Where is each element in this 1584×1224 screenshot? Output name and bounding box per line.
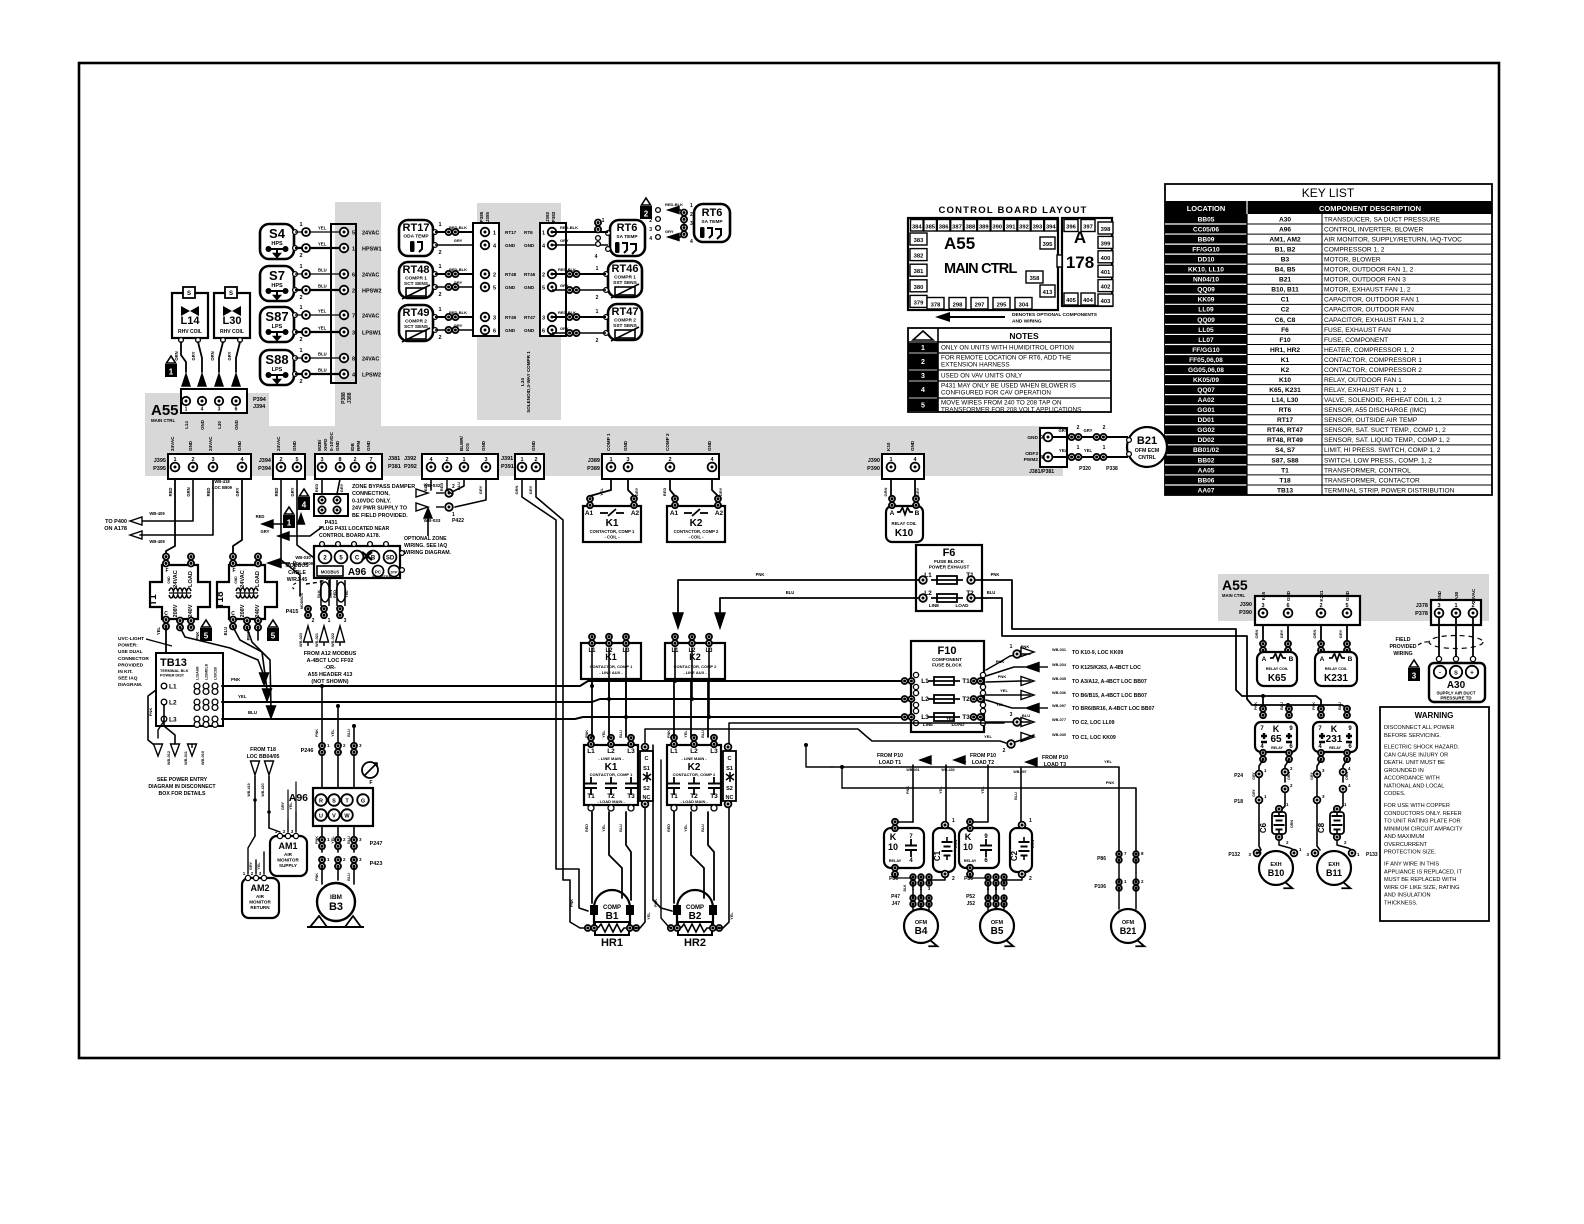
arrowhead into P394: [182, 374, 190, 386]
svg-text:399: 399: [1101, 241, 1111, 247]
wire from P10 T3 to C2: [1014, 768, 1021, 824]
svg-text:T18: T18: [215, 591, 226, 609]
svg-text:404: 404: [1083, 298, 1093, 304]
svg-text:QQ09: QQ09: [1197, 287, 1215, 294]
svg-text:L2: L2: [690, 748, 698, 755]
wire L2 line to P246 branch: [331, 704, 340, 742]
svg-text:4: 4: [595, 254, 598, 260]
svg-text:SST SENS: SST SENS: [613, 280, 638, 286]
note 4 flag at P431: [298, 489, 310, 510]
svg-text:YEL: YEL: [318, 226, 327, 231]
svg-text:- COIL -: - COIL -: [688, 535, 704, 540]
note 2 flag (remote RT6): [640, 198, 652, 219]
svg-text:B3: B3: [329, 901, 343, 913]
svg-text:GRY: GRY: [1279, 629, 1284, 638]
svg-text:8: 8: [352, 357, 355, 363]
wire from P10 T1 to K10 contact: [895, 765, 913, 826]
svg-text:S1: S1: [643, 766, 650, 772]
svg-text:2: 2: [299, 253, 302, 259]
svg-text:P246: P246: [301, 748, 314, 754]
svg-text:FUSE BLOCK: FUSE BLOCK: [934, 559, 965, 564]
svg-text:P381: P381: [388, 464, 401, 470]
svg-text:B2: B2: [689, 911, 702, 922]
svg-text:378: 378: [931, 303, 941, 309]
svg-text:RED: RED: [256, 514, 265, 519]
svg-text:TO A3/A12, A-4BCT LOC BB07: TO A3/A12, A-4BCT LOC BB07: [1072, 679, 1147, 685]
svg-text:TO C2, LOC LL09: TO C2, LOC LL09: [1072, 720, 1115, 726]
svg-text:K10: K10: [886, 442, 891, 451]
wire J392-4 down: [423, 479, 431, 491]
svg-text:1: 1: [185, 407, 188, 413]
switch S4: [260, 224, 297, 259]
svg-text:RELAY, OUTDOOR FAN 1: RELAY, OUTDOOR FAN 1: [1324, 377, 1402, 384]
air monitor AM2: [242, 871, 279, 918]
sheet border frame: [79, 63, 1499, 1058]
svg-text:J381/P381: J381/P381: [1029, 469, 1054, 475]
exhaust fan motor B11: [1306, 841, 1377, 888]
svg-text:B21: B21: [1120, 926, 1137, 936]
svg-text:5: 5: [493, 286, 496, 292]
svg-text:CONTACTOR, COMP 2: CONTACTOR, COMP 2: [673, 772, 716, 777]
solenoid valve L14: [172, 287, 208, 342]
svg-text:TB13: TB13: [1277, 487, 1293, 494]
connector P385/J385: [473, 211, 499, 336]
contactor K2 main contacts: [667, 735, 736, 811]
svg-text:398: 398: [1101, 227, 1111, 233]
svg-text:2: 2: [191, 457, 194, 463]
svg-text:WB-022: WB-022: [331, 633, 335, 647]
svg-text:BLU: BLU: [318, 368, 327, 373]
svg-text:HPS: HPS: [271, 241, 283, 247]
svg-text:389: 389: [979, 225, 989, 231]
svg-text:YEL: YEL: [684, 730, 688, 738]
svg-text:K2: K2: [1281, 367, 1290, 374]
svg-text:POWER EXHAUST: POWER EXHAUST: [929, 565, 970, 570]
sensor RT46: [604, 261, 642, 298]
svg-text:SCT SENS: SCT SENS: [404, 281, 429, 287]
svg-text:1: 1: [952, 818, 955, 824]
svg-text:CONTROL BOARD A178.: CONTROL BOARD A178.: [319, 533, 381, 539]
svg-text:LPS: LPS: [272, 367, 283, 373]
svg-text:BB06: BB06: [1198, 477, 1215, 484]
svg-text:PROVIDED: PROVIDED: [118, 662, 144, 668]
svg-text:RED: RED: [585, 824, 589, 832]
svg-text:K: K: [1331, 724, 1338, 734]
svg-text:L14, L30: L14, L30: [1272, 397, 1299, 404]
svg-text:WB-011: WB-011: [184, 751, 188, 765]
svg-text:FUSE, COMPONENT: FUSE, COMPONENT: [1324, 337, 1388, 344]
svg-text:YEL: YEL: [1059, 448, 1068, 453]
wire T18 secondary to L2/L3 lines: [233, 627, 276, 718]
svg-text:TRANSFORMER FOR 208 VOLT APPLI: TRANSFORMER FOR 208 VOLT APPLICATIONS: [941, 406, 1081, 413]
svg-text:P392: P392: [404, 464, 417, 470]
svg-text:STP: STP: [391, 571, 399, 575]
bus: A55 main control board shaded area (right section): [1218, 574, 1489, 621]
svg-text:RED-BLK: RED-BLK: [449, 310, 467, 315]
svg-text:K65, K231: K65, K231: [1269, 387, 1301, 394]
svg-text:A: A: [1262, 656, 1267, 663]
svg-text:208V: 208V: [240, 604, 246, 617]
control board layout title: [938, 205, 1087, 216]
svg-text:BLU: BLU: [318, 284, 327, 289]
svg-text:MOTOR, BLOWER: MOTOR, BLOWER: [1324, 257, 1381, 264]
svg-text:APPLIANCE IS REPLACED, IT: APPLIANCE IS REPLACED, IT: [1384, 869, 1463, 875]
svg-text:YEL: YEL: [602, 824, 606, 832]
svg-text:P415: P415: [286, 609, 299, 615]
svg-text:HR2: HR2: [684, 937, 706, 949]
svg-text:J390: J390: [868, 458, 880, 464]
wire P423 to B3: [315, 868, 354, 884]
svg-text:ORN: ORN: [954, 840, 958, 849]
svg-text:24VAC: 24VAC: [240, 570, 246, 588]
svg-text:1: 1: [299, 264, 302, 270]
svg-text:CONTACTOR, COMP 2: CONTACTOR, COMP 2: [674, 529, 719, 534]
svg-text:PNK: PNK: [756, 572, 765, 577]
svg-text:L2: L2: [607, 748, 615, 755]
svg-text:B21: B21: [1279, 277, 1291, 284]
svg-text:2: 2: [438, 335, 441, 341]
svg-text:GND: GND: [237, 440, 242, 451]
svg-text:WIRE OF LIKE SIZE, RATING: WIRE OF LIKE SIZE, RATING: [1384, 885, 1459, 891]
svg-text:P390: P390: [867, 466, 880, 472]
svg-text:GND: GND: [1286, 590, 1291, 601]
wire S4 pin 1 to J388: [295, 222, 341, 236]
svg-text:2: 2: [690, 212, 693, 218]
svg-text:24VAC: 24VAC: [362, 357, 379, 363]
svg-text:WB-419: WB-419: [247, 783, 251, 796]
svg-text:RT47: RT47: [612, 306, 639, 318]
svg-text:J392: J392: [404, 456, 416, 462]
svg-text:2: 2: [312, 618, 315, 624]
svg-text:A55: A55: [944, 234, 975, 253]
svg-text:- LINE AUX -: - LINE AUX -: [683, 670, 707, 675]
svg-text:J394: J394: [259, 458, 272, 464]
svg-text:J381: J381: [388, 456, 400, 462]
wire L1 line to P246 branch: [315, 684, 324, 742]
svg-text:GRY: GRY: [290, 487, 295, 496]
plug P431 location note: [319, 526, 389, 539]
svg-text:BE FIELD PROVIDED.: BE FIELD PROVIDED.: [352, 513, 408, 519]
svg-text:PNK: PNK: [654, 899, 658, 907]
relay K10 coil: [886, 496, 923, 542]
svg-text:P86: P86: [964, 876, 973, 882]
svg-text:PC: PC: [375, 570, 382, 575]
svg-text:GG02: GG02: [1197, 427, 1215, 434]
svg-text:TERMINAL STRIP, POWER DISTRIBU: TERMINAL STRIP, POWER DISTRIBUTION: [1324, 487, 1455, 494]
svg-text:B: B: [1348, 656, 1353, 663]
svg-text:RT47: RT47: [524, 315, 536, 320]
svg-text:6: 6: [352, 273, 355, 279]
svg-text:A1: A1: [585, 510, 594, 517]
svg-text:395: 395: [1043, 242, 1053, 248]
sensor RT48: [399, 262, 437, 299]
wire L14 terminal 1 to P394: [174, 342, 186, 372]
svg-text:WB-097: WB-097: [1013, 770, 1026, 774]
wire J381 pin9 to B21 (GRY): [1052, 425, 1128, 440]
svg-text:BB05: BB05: [1198, 216, 1215, 223]
relay K231 coil: [1315, 652, 1357, 686]
svg-text:3: 3: [1261, 603, 1264, 609]
svg-text:GRY: GRY: [454, 323, 463, 328]
vertical net label L34 solenoid: [520, 351, 531, 413]
svg-text:1: 1: [690, 203, 693, 209]
svg-text:GND: GND: [707, 440, 712, 451]
svg-text:P132: P132: [1228, 852, 1240, 858]
svg-text:P338: P338: [1106, 466, 1118, 472]
svg-text:CAPACITOR, EXHAUST FAN 1, 2: CAPACITOR, EXHAUST FAN 1, 2: [1324, 317, 1424, 324]
sensor RT6: [606, 220, 645, 256]
connector P86/P47/J47 to B4: [889, 874, 932, 907]
svg-text:CNTRL: CNTRL: [1138, 455, 1156, 461]
svg-text:RED: RED: [439, 483, 444, 492]
svg-text:J391: J391: [501, 456, 513, 462]
connector J391/P391 on A55 bus: [515, 440, 544, 479]
contactor K1 coil: [583, 496, 641, 542]
svg-text:RT46: RT46: [612, 263, 639, 275]
svg-text:AA02: AA02: [1198, 397, 1215, 404]
svg-text:1: 1: [438, 222, 441, 228]
svg-text:LIMIT, HI PRESS. SWITCH, COMP: LIMIT, HI PRESS. SWITCH, COMP 1, 2: [1324, 447, 1441, 454]
svg-text:2: 2: [1003, 748, 1006, 754]
svg-text:RED-BLK: RED-BLK: [558, 310, 576, 315]
svg-text:B: B: [1289, 656, 1294, 663]
svg-text:9: 9: [1040, 435, 1043, 441]
field provided wiring label: [1389, 637, 1416, 657]
svg-text:1: 1: [299, 305, 302, 311]
svg-text:K65: K65: [1261, 591, 1266, 600]
svg-text:PNK: PNK: [315, 873, 319, 881]
svg-text:382: 382: [914, 254, 924, 260]
svg-text:A55: A55: [151, 402, 179, 419]
svg-text:GRY: GRY: [1059, 428, 1068, 433]
svg-text:K1: K1: [606, 518, 619, 529]
from P10 load T1 label: [877, 753, 931, 772]
wire power line L2 (YEL): [222, 694, 903, 702]
relay K65 coil: [1257, 652, 1297, 686]
svg-text:AIR: AIR: [256, 894, 265, 899]
svg-text:DIAGRAM.: DIAGRAM.: [118, 682, 142, 688]
sensor RT6 (remote option): [694, 204, 730, 242]
svg-text:FROM P10: FROM P10: [970, 753, 996, 759]
svg-text:P24: P24: [1234, 773, 1243, 779]
svg-text:IF ANY WIRE IN THIS: IF ANY WIRE IN THIS: [1384, 862, 1439, 868]
svg-text:CONTACTOR, COMPRESSOR 2: CONTACTOR, COMPRESSOR 2: [1324, 367, 1422, 374]
svg-text:MOVE WIRES FROM 240 TO 208 TAP: MOVE WIRES FROM 240 TO 208 TAP ON: [941, 399, 1062, 406]
svg-text:BLU: BLU: [347, 729, 351, 737]
svg-text:S88: S88: [265, 352, 288, 367]
wire J394-5 down (GRY): [290, 479, 335, 596]
svg-text:24VAC: 24VAC: [208, 436, 213, 451]
svg-text:L30: L30: [217, 421, 222, 429]
svg-text:2: 2: [299, 337, 302, 343]
svg-text:208V: 208V: [173, 604, 179, 617]
wire F6 L2 feed: [715, 590, 919, 628]
wire K2 line aux to K2 main: [667, 682, 708, 738]
svg-text:WIRING: WIRING: [1393, 651, 1412, 657]
svg-text:3: 3: [320, 457, 323, 463]
wire J392 to WB-032: [452, 479, 486, 507]
svg-text:GRY: GRY: [227, 351, 232, 360]
svg-text:S2: S2: [726, 786, 733, 792]
arrowhead into P394: [215, 374, 223, 386]
svg-text:5: 5: [921, 403, 925, 410]
wire J395-4 to T18: [233, 479, 242, 556]
svg-text:LOAD: LOAD: [188, 571, 194, 587]
svg-text:BLU: BLU: [223, 627, 228, 636]
svg-text:1: 1: [609, 457, 612, 463]
svg-text:A55: A55: [1222, 577, 1248, 593]
svg-text:5: 5: [1345, 603, 1348, 609]
svg-text:A2: A2: [631, 510, 640, 517]
svg-text:24VAC: 24VAC: [362, 314, 379, 320]
svg-text:GND: GND: [1437, 590, 1442, 601]
svg-text:YEL: YEL: [684, 824, 688, 832]
svg-text:6: 6: [493, 329, 496, 335]
svg-text:J388: J388: [347, 392, 353, 403]
svg-text:1: 1: [352, 247, 355, 253]
svg-text:J394: J394: [253, 404, 266, 410]
svg-text:WB-420: WB-420: [261, 783, 265, 796]
svg-text:LPS: LPS: [272, 324, 283, 330]
svg-text:3: 3: [690, 221, 693, 227]
svg-text:SEE IAQ: SEE IAQ: [118, 676, 138, 682]
svg-text:BLU: BLU: [701, 824, 705, 832]
svg-text:BLWR/: BLWR/: [459, 435, 464, 451]
svg-text:24V PWR SUPPLY TO: 24V PWR SUPPLY TO: [352, 506, 407, 512]
svg-text:1: 1: [542, 231, 545, 237]
svg-text:FOR REMOTE LOCATION OF RT6, AD: FOR REMOTE LOCATION OF RT6, ADD THE: [941, 354, 1071, 361]
svg-text:BLU: BLU: [619, 824, 623, 832]
svg-text:G: G: [361, 799, 365, 805]
svg-text:WB-030: WB-030: [295, 555, 311, 560]
svg-text:CODES.: CODES.: [1384, 791, 1406, 797]
svg-text:YEL: YEL: [318, 242, 327, 247]
svg-text:CONTROL INVERTER, BLOWER: CONTROL INVERTER, BLOWER: [1324, 226, 1424, 233]
svg-text:A: A: [1074, 228, 1086, 247]
svg-text:YEL: YEL: [318, 326, 327, 331]
svg-text:387: 387: [952, 225, 962, 231]
wire J381-8 to P431: [337, 479, 344, 494]
svg-text:3: 3: [493, 316, 496, 322]
connector P415: [286, 592, 347, 624]
transducer A30 supply air duct pressure: [1429, 663, 1485, 702]
svg-text:GRY: GRY: [1338, 629, 1343, 638]
relay K231 contacts: [1312, 702, 1357, 762]
svg-text:PRESSURE TD: PRESSURE TD: [1440, 696, 1471, 701]
svg-text:HR1: HR1: [601, 937, 623, 949]
connector J382/P382: [540, 211, 566, 336]
svg-text:DENOTES OPTIONAL COMPONENTS: DENOTES OPTIONAL COMPONENTS: [1012, 312, 1098, 318]
svg-text:BOX FOR DETAILS: BOX FOR DETAILS: [159, 791, 206, 797]
svg-text:1: 1: [1077, 445, 1080, 451]
svg-text:GRY: GRY: [560, 238, 569, 243]
svg-text:BEFORE SERVICING.: BEFORE SERVICING.: [1384, 733, 1441, 739]
svg-text:F6: F6: [1281, 327, 1289, 334]
wire J389-1 to K1 coil: [590, 479, 611, 500]
svg-text:MOTOR, OUTDOOR FAN 3: MOTOR, OUTDOOR FAN 3: [1324, 277, 1406, 284]
svg-text:GND: GND: [234, 420, 239, 430]
compressor B1 with heater HR1: [585, 890, 639, 949]
svg-text:P133: P133: [1366, 852, 1378, 858]
svg-text:295: 295: [997, 303, 1007, 309]
connector J381/P381 on A55 bus: [315, 431, 382, 479]
svg-text:F10: F10: [938, 645, 957, 657]
wire A96 to P415 (twisted pairs): [317, 580, 349, 606]
wire K231 to C8/B11: [1310, 760, 1351, 850]
wire K2 main T2 to B2: [684, 812, 704, 898]
svg-text:YEL: YEL: [599, 488, 604, 496]
connector J395/P395 on A55 bus: [153, 436, 251, 479]
svg-text:P422: P422: [452, 518, 464, 524]
svg-text:B10, B11: B10, B11: [1271, 287, 1299, 294]
svg-text:CAN CAUSE INJURY OR: CAN CAUSE INJURY OR: [1384, 752, 1448, 758]
svg-text:C2: C2: [1281, 307, 1290, 314]
wire RT17 to P385: [435, 222, 481, 256]
wire F6 T2 to K65/K231 (BLU): [975, 590, 1347, 708]
power entry arrowheads: [154, 744, 197, 756]
relay K65 contacts: [1254, 702, 1297, 762]
svg-text:ORN: ORN: [1254, 629, 1259, 638]
svg-text:C6, C8: C6, C8: [1275, 317, 1296, 324]
svg-text:2: 2: [438, 292, 441, 298]
svg-text:NN04/10: NN04/10: [1193, 277, 1219, 284]
svg-text:304: 304: [1019, 303, 1029, 309]
svg-text:U: U: [319, 814, 323, 820]
svg-text:ELECTRIC SHOCK HAZARD.: ELECTRIC SHOCK HAZARD.: [1384, 745, 1460, 751]
svg-text:T3: T3: [710, 793, 718, 800]
svg-text:F10: F10: [1279, 337, 1291, 344]
svg-text:L3: L3: [921, 714, 929, 721]
svg-text:CONTACTOR, COMP 1: CONTACTOR, COMP 1: [590, 772, 633, 777]
connector J388/P388: [331, 224, 382, 404]
svg-text:GRY: GRY: [1252, 789, 1256, 797]
svg-text:2: 2: [353, 457, 356, 463]
svg-text:RED: RED: [667, 824, 671, 832]
svg-text:TO BR6/BR16, A-4BCT LOC BB07: TO BR6/BR16, A-4BCT LOC BB07: [1072, 706, 1155, 712]
svg-text:WB-033: WB-033: [424, 518, 441, 523]
svg-text:HEATER, COMPRESSOR 1, 2: HEATER, COMPRESSOR 1, 2: [1324, 347, 1415, 354]
svg-text:ODF3: ODF3: [1025, 451, 1038, 457]
svg-text:GROUNDED IN: GROUNDED IN: [1384, 768, 1424, 774]
svg-text:PNK: PNK: [996, 659, 1005, 664]
svg-text:YEL: YEL: [981, 786, 985, 794]
svg-text:1: 1: [328, 618, 331, 624]
wire J390-6 to K65 coil: [1279, 617, 1291, 653]
connector P423: [319, 857, 382, 869]
svg-text:BB02: BB02: [1198, 457, 1215, 464]
svg-text:LINE: LINE: [929, 603, 939, 608]
switch S88: [260, 350, 297, 385]
svg-text:GND: GND: [188, 440, 193, 451]
svg-text:PNK: PNK: [148, 708, 153, 717]
svg-text:T3: T3: [962, 714, 970, 721]
wire feeds to B2/HR2: [653, 745, 672, 928]
wire S7 pin 1 to J388: [295, 264, 341, 278]
wire F10 T1 to arrows: [986, 644, 1030, 682]
wire RT48 to P385: [435, 264, 481, 298]
svg-text:RELAY COIL: RELAY COIL: [1266, 667, 1289, 671]
wire K1 main T3 to B1: [619, 812, 631, 900]
svg-text:RELAY: RELAY: [964, 859, 977, 863]
svg-text:- LOAD MAIN -: - LOAD MAIN -: [680, 799, 708, 804]
svg-text:401: 401: [1101, 270, 1111, 276]
svg-text:IBM: IBM: [330, 894, 342, 901]
connector J378/P378 right bus: [1415, 588, 1481, 625]
svg-text:T1: T1: [148, 594, 159, 606]
svg-text:A96: A96: [348, 567, 367, 578]
svg-text:K65: K65: [1268, 673, 1287, 684]
from P10 load T2 label: [941, 753, 996, 772]
